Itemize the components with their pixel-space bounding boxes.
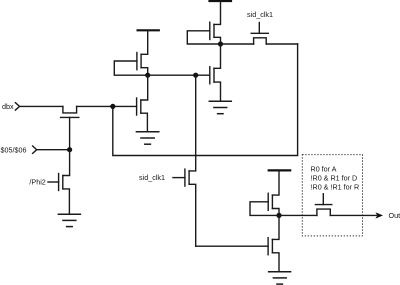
transistor Q4 (driver, inverter 2) xyxy=(210,44,221,101)
transistor Q6 (/Phi2 discharge) xyxy=(59,174,70,215)
wire bootstrap loop (right vertical, bottom horizontal, left vertical to dbx node) xyxy=(113,44,298,156)
svg-text:$05/$06: $05/$06 xyxy=(1,145,27,154)
svg-text:R0 for A: R0 for A xyxy=(311,164,337,173)
port chevron dbx xyxy=(15,103,19,110)
node B junction dot (inverter-1 output) xyxy=(145,73,150,78)
power rail VDD bar (for Q9) xyxy=(269,169,291,171)
power rail VDD bar (top, for Q3) xyxy=(210,0,232,2)
power rail VDD bar (for Q1) xyxy=(138,29,159,31)
transistor Q10 (output driver) xyxy=(268,215,279,271)
node A junction dot xyxy=(218,41,223,46)
wire VDD stem to Q9 drain xyxy=(272,171,279,195)
transistor Q5 (dbx input pass gate, gate down) xyxy=(61,106,79,149)
wire Q8 gate lead xyxy=(173,177,185,179)
wire VDD stem to Q3 drain xyxy=(214,2,221,24)
svg-text:!R0 & R1 for D: !R0 & R1 for D xyxy=(311,174,358,183)
wire clock-gate node down to Q6 drain xyxy=(63,150,70,176)
arrowhead Out xyxy=(375,212,383,218)
transistor Q2 (driver, inverter 1) xyxy=(137,75,148,131)
svg-text:sid_clk1: sid_clk1 xyxy=(139,173,165,182)
wire output pass gate to Out arrow xyxy=(330,214,376,216)
transistor Q3 (load, diode-connected, top middle) xyxy=(210,22,221,44)
ground (below Q10) xyxy=(269,272,291,284)
wire Q9 gate wrap to out node xyxy=(250,202,279,216)
dotted annotation box xyxy=(302,155,362,236)
wire Q7 right lead to loop xyxy=(266,43,297,45)
transistor Q9 (load, diode-connected, output stage) xyxy=(268,193,279,215)
svg-text:Out: Out xyxy=(389,211,400,220)
wire $05/$06 to clock-gate node xyxy=(37,149,70,151)
wire Q5 to dbx node and Q2 gate xyxy=(77,105,137,107)
transistor Q1 (load, diode-connected, top left) xyxy=(137,53,148,76)
ground (below Q2) xyxy=(136,132,158,144)
node dbx junction dot xyxy=(110,104,115,109)
port chevron $05/$06 xyxy=(33,146,37,153)
transistor Q7 (sid_clk1 pass gate, top) xyxy=(251,23,268,45)
svg-text:sid_clk1: sid_clk1 xyxy=(247,10,273,19)
svg-text:!R0 & !R1 for R: !R0 & !R1 for R xyxy=(311,183,360,192)
ground (below Q4) xyxy=(209,101,231,113)
node C junction dot (tap to Q8) xyxy=(193,73,198,78)
node Out junction dot xyxy=(276,213,281,218)
wire node C down to Q8 drain (crosses loop wire) xyxy=(189,75,196,171)
wire node A to Q7 left lead xyxy=(221,43,254,45)
wire dbx input to Q5 xyxy=(20,105,63,107)
wire VDD stem to Q1 drain xyxy=(141,31,148,54)
wire inverter-1 output to Q4 gate xyxy=(148,74,210,76)
svg-text:/Phi2: /Phi2 xyxy=(29,178,45,187)
wire Q1 gate wrap to node B xyxy=(114,61,147,75)
transistor Q8 (sid_clk1 pass gate, middle) xyxy=(185,169,196,246)
node clock-gate junction dot xyxy=(67,147,72,152)
transistor Q11 (output pass gate in dotted box) xyxy=(315,194,331,216)
wire out node to output pass gate xyxy=(279,214,317,216)
ground (below Q6) xyxy=(58,214,80,226)
wire Q6 gate lead xyxy=(48,181,59,183)
wire Q8 source to Q10 gate xyxy=(196,245,268,247)
wire Q3 gate wrap to node A xyxy=(187,31,220,44)
svg-text:dbx: dbx xyxy=(2,102,14,111)
